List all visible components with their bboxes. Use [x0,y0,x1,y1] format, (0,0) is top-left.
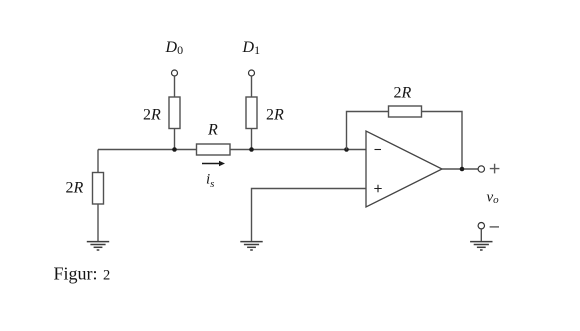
node junction output [460,167,465,172]
wire left resistor to ground [97,204,99,242]
resistor 2R (left, to ground) [93,173,104,205]
wire D0 terminal to resistor [174,76,176,97]
svg-text:2R: 2R [394,85,412,102]
wire D1 resistor to node [251,129,253,150]
op-amp U1 [366,131,442,207]
svg-text:Figur:2: Figur:2 [54,264,111,284]
output minus sign [490,226,499,228]
ground (left) [87,242,109,250]
ground (right) [470,242,492,250]
current arrow i_s [202,161,225,167]
terminal D0 (open circle) [172,70,178,76]
resistor 2R (D0 branch) [169,97,180,129]
node junction D1 [249,147,254,152]
terminal output + (open circle) [478,166,484,172]
node junction feedback tap [344,147,349,152]
svg-text:is: is [206,172,214,191]
svg-text:2R: 2R [143,107,161,124]
wire D1 terminal to resistor [251,76,253,97]
ground (middle) [240,242,262,250]
resistor 2R (D1 branch) [246,97,257,129]
svg-text:2R: 2R [66,180,84,197]
wire feedback to output node [422,112,463,170]
op-amp plus symbol [374,185,381,192]
wire feedback up and across [347,112,389,150]
terminal D1 (open circle) [249,70,255,76]
resistor R (series, horizontal) [197,144,231,155]
node junction D0 [172,147,177,152]
wire D0 resistor to node [174,129,176,150]
wire op-amp output [442,168,478,170]
op-amp minus symbol [375,149,382,151]
svg-text:vo: vo [487,190,500,207]
wire lower terminal to ground [480,229,482,242]
wire left branch down [97,150,99,173]
resistor 2R (feedback) [389,106,422,117]
terminal output - (open circle) [478,223,484,229]
svg-text:R: R [207,122,218,139]
svg-text:2R: 2R [266,107,284,124]
wire non-inverting input to ground [252,189,367,242]
output plus sign [490,164,500,174]
wire main inverting-input net (horizontal bus) [98,149,366,151]
svg-text:D1: D1 [242,39,261,57]
svg-text:D0: D0 [165,39,184,57]
